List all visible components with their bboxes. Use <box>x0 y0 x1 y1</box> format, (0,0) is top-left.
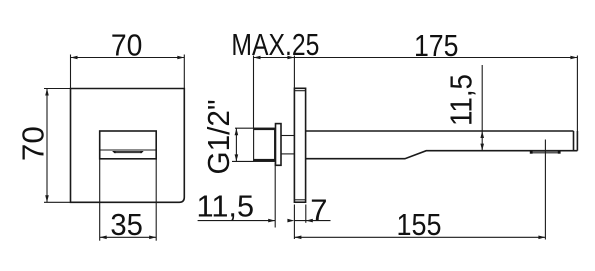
dimension G1/2": value text (rotated) <box>201 100 236 175</box>
dimension 11,5 left: extension line at locknut face <box>274 163 276 228</box>
side view: end cap <box>573 131 575 151</box>
dimension MAX.25 / 175: shared dimension line <box>254 57 578 59</box>
side view: wall flange (plate edge-on) <box>294 88 305 202</box>
svg-text:35: 35 <box>110 207 143 242</box>
dimension 70 left: value text (rotated) <box>16 126 51 161</box>
svg-text:G1/2": G1/2" <box>201 100 236 175</box>
front view: outlet slot bar <box>112 151 143 153</box>
front view: spout body rectangle <box>100 131 157 159</box>
svg-text:11,5: 11,5 <box>197 189 255 224</box>
svg-text:MAX.25: MAX.25 <box>231 27 319 62</box>
dimension 70 top: extension lines <box>70 55 72 89</box>
side view: spout bottom edge with step <box>306 151 578 159</box>
svg-text:155: 155 <box>397 207 442 242</box>
side view: threaded pipe G1/2 <box>254 128 275 161</box>
front view: wall plate 70x70 <box>71 89 185 203</box>
dimension 155: arrowheads <box>294 236 301 240</box>
side view: neck between collar and flange <box>281 135 294 137</box>
dimension 70 left: extension lines <box>44 88 71 90</box>
dimension 175: extension line at spout tip <box>576 56 578 132</box>
dimension 70 top: dimension line <box>71 57 185 59</box>
dimension G1/2": arrowheads <box>235 128 239 135</box>
dimension 70 top: arrowheads <box>71 56 78 60</box>
dimension 155: dimension line <box>294 236 545 238</box>
side view: aerator outlet <box>531 151 561 154</box>
dimension 175 right arrowhead <box>570 56 577 60</box>
svg-text:70: 70 <box>16 126 51 161</box>
dimension 11,5 right: value text (rotated) <box>444 74 479 126</box>
dimension 11,5 / 7: dimension line segments <box>198 220 276 222</box>
svg-text:7: 7 <box>310 193 327 228</box>
dimension 11,5 right: dimension line <box>481 65 483 151</box>
side view: locknut collar <box>276 124 282 166</box>
dimension G1/2": dimension line <box>235 128 237 161</box>
dimension 155: extension line at plate face (below flange) <box>293 205 295 240</box>
dimension 155: extension line at outlet <box>544 140 546 240</box>
svg-text:11,5: 11,5 <box>444 74 479 126</box>
dimension 35: arrowheads <box>100 236 107 240</box>
dimension 11,5 / 7: arrowheads <box>268 219 275 223</box>
svg-text:70: 70 <box>111 28 143 63</box>
front view: spout face divider line <box>100 149 157 151</box>
dimension MAX.25 / 155 / 175: extension line at plate face <box>293 56 295 89</box>
dimension G1/2": extension lines <box>235 127 254 129</box>
dimension 70 left: arrowheads <box>45 89 49 96</box>
dimension MAX.25: extension line at thread end <box>253 56 255 129</box>
dimension MAX.25 arrowheads <box>254 56 261 60</box>
dimension 11,5 right: arrowheads <box>480 131 484 138</box>
dimension 35: dimension line <box>100 236 157 238</box>
dimension 7: extension line at flange right <box>305 205 307 223</box>
dimension 70 left: dimension line <box>46 89 48 203</box>
svg-text:175: 175 <box>414 28 459 63</box>
side view: spout top edge <box>306 130 574 132</box>
dimension 35: extension lines <box>99 159 101 241</box>
